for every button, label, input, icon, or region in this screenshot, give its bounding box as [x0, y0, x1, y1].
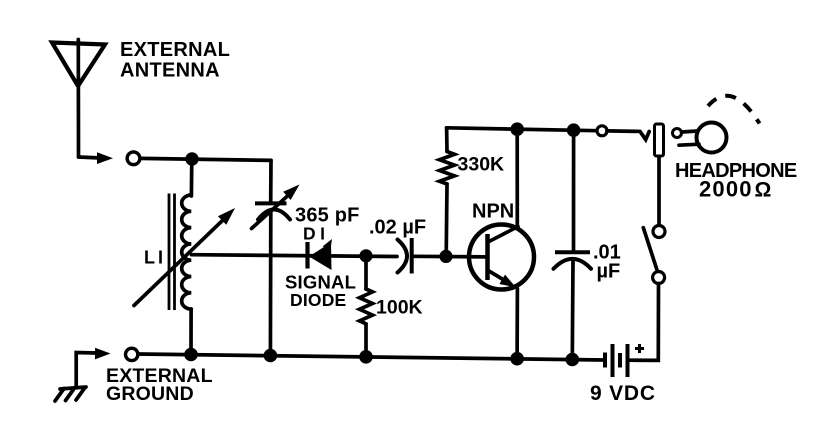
arrow variable-capacitor adjust — [252, 185, 300, 229]
wire top rail — [447, 128, 597, 131]
wire collector lead — [515, 129, 519, 226]
wire cap to base — [412, 254, 488, 258]
node junction 100K/bottom rail — [359, 350, 373, 364]
headphone jack terminal — [673, 129, 682, 138]
node junction diode/100K — [359, 249, 372, 262]
svg-text:EXTERNAL: EXTERNAL — [120, 39, 230, 61]
svg-text:NPN: NPN — [472, 201, 514, 223]
svg-text:DIODE: DIODE — [290, 290, 346, 310]
label SIGNAL DIODE — [285, 272, 356, 311]
wire 365pF top lead — [269, 160, 273, 201]
switch S1 — [643, 226, 665, 284]
antenna symbol — [52, 40, 105, 158]
wire top-left rail — [140, 158, 271, 160]
label battery plus — [635, 344, 644, 353]
wire L1 top lead — [190, 159, 194, 196]
svg-text:9 VDC: 9 VDC — [590, 382, 656, 405]
wire plug to switch — [657, 156, 661, 225]
resistor R 330K — [440, 128, 455, 256]
wire headphone leads — [679, 131, 699, 145]
svg-text:.02 µF: .02 µF — [369, 217, 426, 239]
node junction at L1 top — [185, 152, 198, 165]
label .01 uF — [593, 242, 621, 283]
wire .01uF bottom lead — [570, 261, 574, 360]
inductor L1 core lines — [169, 194, 175, 311]
svg-text:2000: 2000 — [699, 177, 753, 202]
wire .01uF top lead — [572, 130, 576, 250]
wire jack spring contact — [607, 131, 649, 140]
node output terminal — [597, 126, 607, 136]
capacitor C .01 uF — [554, 252, 592, 268]
svg-text:330K: 330K — [458, 154, 505, 176]
wire middle tap to diode — [192, 255, 398, 257]
phone plug P1 — [655, 124, 664, 156]
node junction emitter/bottom rail — [510, 352, 524, 366]
svg-text:µF: µF — [597, 261, 621, 283]
wire antenna lead-in with arrow — [79, 152, 114, 164]
capacitor C .02 uF — [398, 238, 412, 274]
node junction 365pF/bottom rail — [264, 349, 278, 363]
node antenna terminal — [127, 152, 140, 165]
ground symbol — [55, 387, 86, 401]
svg-text:GROUND: GROUND — [106, 383, 194, 405]
resistor R 100K — [360, 256, 373, 357]
node junction .01uF/bottom rail — [566, 353, 580, 367]
svg-text:DI: DI — [303, 224, 330, 244]
inductor L1 coil — [182, 195, 192, 309]
svg-text:Ω: Ω — [755, 179, 772, 202]
node junction base/330K — [439, 250, 452, 263]
label EXTERNAL ANTENNA — [120, 39, 230, 82]
svg-text:LI: LI — [144, 248, 166, 268]
wire 365pF bottom lead — [269, 212, 273, 356]
diode D1 — [308, 239, 333, 270]
arrow variable-inductor adjust — [134, 208, 235, 306]
wire bottom rail — [138, 354, 603, 360]
node junction L1/bottom rail — [184, 348, 198, 362]
battery B1 9VDC — [605, 344, 628, 377]
transistor Q1 NPN — [469, 225, 534, 290]
label EXTERNAL GROUND — [106, 365, 213, 405]
wire L1 bottom lead — [189, 309, 193, 355]
svg-text:100K: 100K — [376, 297, 423, 319]
label HEADPHONE 2000 ohm — [675, 160, 797, 202]
wire emitter lead — [515, 289, 519, 359]
node junction collector/top rail — [510, 122, 524, 136]
node ground terminal — [126, 348, 138, 360]
svg-text:ANTENNA: ANTENNA — [120, 60, 220, 82]
capacitor C-var 365 pF — [255, 203, 290, 219]
headphone earpiece — [697, 123, 727, 153]
node junction .01uF/top rail — [567, 123, 581, 137]
wire ground lead-in with arrow — [76, 348, 110, 387]
headphone headband dashed — [708, 96, 760, 124]
wire switch to battery — [630, 284, 659, 361]
